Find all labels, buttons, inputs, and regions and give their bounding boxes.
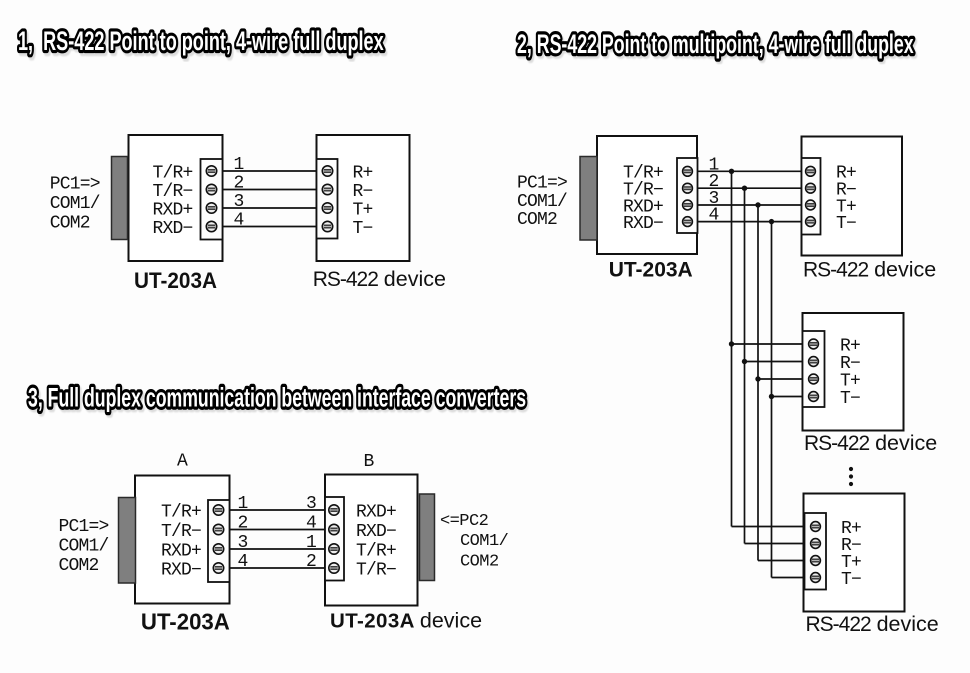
screw terminal 4 of RS-422 device 2 bbox=[809, 392, 819, 402]
svg-text:RXD−: RXD− bbox=[161, 560, 201, 580]
terminal strip of converter B bbox=[325, 497, 344, 581]
terminal strip of RS-422 device 1 bbox=[802, 158, 821, 235]
screw terminal 4 of converter B bbox=[329, 563, 339, 573]
wire 4 converter to device 1 (diagram 2) bbox=[698, 221, 802, 223]
screw terminal 2 of RS-422 device 1 bbox=[806, 183, 816, 193]
svg-text:PC1=>: PC1=> bbox=[517, 174, 567, 194]
converter UT-203A box (diagram 2) bbox=[597, 136, 697, 254]
screw terminal 4 of UT-203A (diagram 1) bbox=[206, 221, 216, 231]
elbow wire 1 to device 3 bbox=[732, 526, 805, 528]
svg-text:PC1=>: PC1=> bbox=[50, 174, 100, 194]
screw terminal 3 of converter A bbox=[213, 544, 223, 554]
svg-text:<=PC2: <=PC2 bbox=[440, 512, 488, 531]
junction dot on wire 2 (diagram 2) bbox=[742, 186, 747, 191]
svg-text:T/R−: T/R− bbox=[356, 560, 396, 580]
screw terminal 1 of RS-422 device 2 bbox=[809, 339, 819, 349]
DB9 connector (gray) on UT-203A (diagram 2) bbox=[580, 157, 597, 241]
vertical bus wire 4 (diagram 2) bbox=[771, 222, 773, 578]
svg-text:RXD+: RXD+ bbox=[152, 200, 192, 220]
junction dot on bus 3 (device 2 branch) bbox=[755, 376, 760, 381]
svg-text:3: 3 bbox=[237, 533, 247, 553]
screw terminal 4 of converter A bbox=[213, 563, 223, 573]
screw terminal 3 of converter B bbox=[329, 544, 339, 554]
terminal strip of UT-203A (diagram 1) bbox=[201, 159, 223, 240]
terminal strip of UT-203A (diagram 2) bbox=[677, 158, 698, 233]
screw terminal 2 of RS-422 device 3 bbox=[811, 539, 821, 549]
svg-text:4: 4 bbox=[306, 514, 316, 534]
screw terminal 1 of UT-203A (diagram 2) bbox=[683, 166, 693, 176]
svg-text:RXD−: RXD− bbox=[152, 219, 192, 239]
screw terminal 3 of UT-203A (diagram 2) bbox=[683, 200, 693, 210]
converter B UT-203A box (diagram 3) bbox=[325, 475, 418, 606]
branch wire 1 to device 2 bbox=[732, 343, 803, 345]
DB9 connector (gray) on converter B bbox=[420, 494, 435, 581]
svg-text:R+: R+ bbox=[353, 163, 373, 183]
svg-text:T+: T+ bbox=[353, 200, 373, 220]
svg-text:RS-422: RS-422 bbox=[313, 268, 379, 291]
junction dot on bus 2 (device 2 branch) bbox=[742, 359, 747, 364]
svg-text:T−: T− bbox=[840, 389, 860, 409]
screw terminal 2 of converter A bbox=[213, 524, 223, 534]
svg-text:T−: T− bbox=[841, 570, 861, 590]
terminal strip of RS-422 device (diagram 1) bbox=[317, 159, 338, 239]
svg-text:PC1=>: PC1=> bbox=[59, 517, 109, 537]
terminal strip of RS-422 device 3 bbox=[805, 513, 827, 590]
svg-text:COM2: COM2 bbox=[59, 556, 99, 576]
junction dot on bus 1 (device 2 branch) bbox=[729, 341, 734, 346]
svg-text:device: device bbox=[877, 612, 939, 636]
svg-text:RS-422: RS-422 bbox=[803, 259, 869, 282]
wire 2 between converters (diagram 3) bbox=[230, 529, 326, 531]
screw terminal 3 of RS-422 device 3 bbox=[811, 556, 821, 566]
svg-text:4: 4 bbox=[233, 211, 243, 231]
svg-text:R−: R− bbox=[353, 182, 373, 202]
RS-422 device 3 box (diagram 2) bbox=[804, 494, 905, 612]
wire 2 (diagram 1) bbox=[223, 189, 317, 191]
DB9 connector (gray) on converter A bbox=[119, 498, 136, 584]
svg-text:device: device bbox=[420, 609, 482, 633]
wire 2 converter to device 1 (diagram 2) bbox=[698, 187, 802, 189]
svg-text:1: 1 bbox=[233, 155, 243, 175]
screw terminal 4 of RS-422 device 1 bbox=[806, 217, 816, 227]
svg-text:2: 2 bbox=[306, 552, 316, 572]
screw terminal 1 of converter A bbox=[213, 505, 223, 515]
terminal strip of RS-422 device 2 bbox=[803, 331, 825, 407]
screw terminal 4 of UT-203A (diagram 2) bbox=[683, 217, 693, 227]
RS-422 device 2 box (diagram 2) bbox=[803, 313, 904, 431]
screw terminal 2 of converter B bbox=[329, 524, 339, 534]
label UT-203A (diagram 1) bbox=[134, 267, 217, 293]
junction dot on wire 1 (diagram 2) bbox=[729, 169, 734, 174]
screw terminal 3 of UT-203A (diagram 1) bbox=[206, 203, 216, 213]
screw terminal 1 of converter B bbox=[329, 505, 339, 515]
ellipsis dots between device 2 and 3 bbox=[849, 467, 853, 471]
svg-text:4: 4 bbox=[237, 552, 247, 572]
converter A UT-203A box (diagram 3) bbox=[135, 476, 230, 604]
wire 3 between converters (diagram 3) bbox=[230, 548, 326, 550]
svg-text:COM1/: COM1/ bbox=[59, 537, 109, 557]
branch wire 3 to device 2 bbox=[758, 378, 803, 380]
svg-text:T−: T− bbox=[836, 214, 856, 234]
svg-text:1, RS-422 Point to point, 4-w: 1, RS-422 Point to point, 4-wire full du… bbox=[18, 26, 384, 57]
screw terminal 1 of RS-422 device 1 bbox=[806, 166, 816, 176]
screw terminal 4 of RS-422 device (diagram 1) bbox=[322, 221, 332, 231]
screw terminal 3 of RS-422 device 1 bbox=[806, 200, 816, 210]
svg-text:A: A bbox=[177, 452, 188, 472]
svg-text:T/R−: T/R− bbox=[161, 522, 201, 542]
screw terminal 1 of RS-422 device (diagram 1) bbox=[322, 166, 332, 176]
junction dot on bus 4 (device 2 branch) bbox=[769, 394, 774, 399]
svg-text:COM2: COM2 bbox=[460, 553, 499, 572]
svg-text:device: device bbox=[875, 431, 937, 455]
svg-text:3: 3 bbox=[306, 494, 316, 514]
svg-text:COM2: COM2 bbox=[50, 214, 90, 234]
junction dot on wire 3 (diagram 2) bbox=[755, 202, 760, 207]
svg-text:T−: T− bbox=[353, 219, 373, 239]
screw terminal 3 of RS-422 device (diagram 1) bbox=[322, 203, 332, 213]
svg-text:3: 3 bbox=[233, 192, 243, 212]
screw terminal 2 of RS-422 device (diagram 1) bbox=[322, 184, 332, 194]
svg-text:COM1/: COM1/ bbox=[50, 194, 100, 214]
vertical bus wire 2 (diagram 2) bbox=[744, 188, 746, 543]
svg-text:4: 4 bbox=[708, 206, 718, 226]
svg-text:T/R+: T/R+ bbox=[161, 502, 201, 522]
svg-text:device: device bbox=[384, 267, 446, 291]
elbow wire 4 to device 3 bbox=[772, 577, 805, 579]
wire 1 converter to device 1 (diagram 2) bbox=[698, 170, 802, 172]
svg-text:RXD+: RXD+ bbox=[161, 541, 201, 561]
elbow wire 2 to device 3 bbox=[745, 543, 805, 545]
svg-text:RXD+: RXD+ bbox=[356, 502, 396, 522]
wire 4 (diagram 1) bbox=[223, 226, 317, 228]
terminal strip of converter A bbox=[208, 500, 230, 582]
svg-text:2: 2 bbox=[237, 514, 247, 534]
svg-text:RXD−: RXD− bbox=[623, 214, 663, 234]
wire 3 (diagram 1) bbox=[223, 207, 317, 209]
svg-text:UT-203A: UT-203A bbox=[134, 267, 217, 293]
elbow wire 3 to device 3 bbox=[758, 560, 805, 562]
wire 1 between converters (diagram 3) bbox=[230, 509, 326, 511]
junction dot on wire 4 (diagram 2) bbox=[769, 219, 774, 224]
title: 2, RS-422 Point to multipoint, 4-wire full duplex bbox=[517, 28, 916, 61]
svg-text:1: 1 bbox=[237, 494, 247, 514]
svg-text:1: 1 bbox=[306, 533, 316, 553]
vertical bus wire 1 (diagram 2) bbox=[731, 171, 733, 526]
screw terminal 3 of RS-422 device 2 bbox=[809, 374, 819, 384]
svg-text:UT-203A: UT-203A bbox=[330, 610, 415, 633]
svg-text:T/R−: T/R− bbox=[152, 182, 192, 202]
wire 4 between converters (diagram 3) bbox=[230, 567, 326, 569]
svg-text:RS-422: RS-422 bbox=[806, 613, 872, 636]
wire 3 converter to device 1 (diagram 2) bbox=[698, 204, 802, 206]
svg-text:2, RS-422 Point to multipoint,: 2, RS-422 Point to multipoint, 4-wire fu… bbox=[517, 28, 914, 59]
vertical bus wire 3 (diagram 2) bbox=[757, 205, 759, 561]
svg-text:COM1/: COM1/ bbox=[517, 192, 567, 212]
svg-text:COM2: COM2 bbox=[517, 210, 557, 230]
screw terminal 4 of RS-422 device 3 bbox=[811, 573, 821, 583]
svg-text:RS-422: RS-422 bbox=[804, 432, 870, 455]
svg-text:B: B bbox=[363, 452, 374, 472]
svg-text:2: 2 bbox=[233, 174, 243, 194]
DB9 connector (gray) on UT-203A (diagram 1) bbox=[112, 157, 128, 240]
svg-text:UT-203A: UT-203A bbox=[609, 259, 693, 282]
screw terminal 1 of RS-422 device 3 bbox=[811, 522, 821, 532]
svg-text:COM1/: COM1/ bbox=[460, 532, 509, 551]
svg-text:3, Full duplex communication b: 3, Full duplex communication between int… bbox=[28, 382, 526, 413]
title: 1, RS-422 Point to point, 4-wire full duplex bbox=[18, 26, 386, 59]
title: 3, Full duplex communication between interface converters bbox=[28, 382, 528, 415]
RS-422 device box (diagram 1) bbox=[317, 135, 410, 261]
screw terminal 1 of UT-203A (diagram 1) bbox=[206, 166, 216, 176]
converter UT-203A box (diagram 1) bbox=[129, 135, 223, 261]
screw terminal 2 of UT-203A (diagram 1) bbox=[206, 184, 216, 194]
branch wire 4 to device 2 bbox=[772, 396, 803, 398]
branch wire 2 to device 2 bbox=[745, 361, 803, 363]
svg-text:device: device bbox=[874, 258, 936, 282]
RS-422 device 1 box (diagram 2) bbox=[802, 137, 903, 256]
svg-text:T/R+: T/R+ bbox=[356, 541, 396, 561]
wire 1 (diagram 1) bbox=[223, 170, 317, 172]
svg-text:UT-203A: UT-203A bbox=[141, 609, 230, 634]
label UT-203A (converter A) bbox=[141, 609, 230, 634]
screw terminal 2 of UT-203A (diagram 2) bbox=[683, 183, 693, 193]
svg-text:RXD−: RXD− bbox=[356, 522, 396, 542]
screw terminal 2 of RS-422 device 2 bbox=[809, 357, 819, 367]
svg-text:T/R+: T/R+ bbox=[152, 163, 192, 183]
